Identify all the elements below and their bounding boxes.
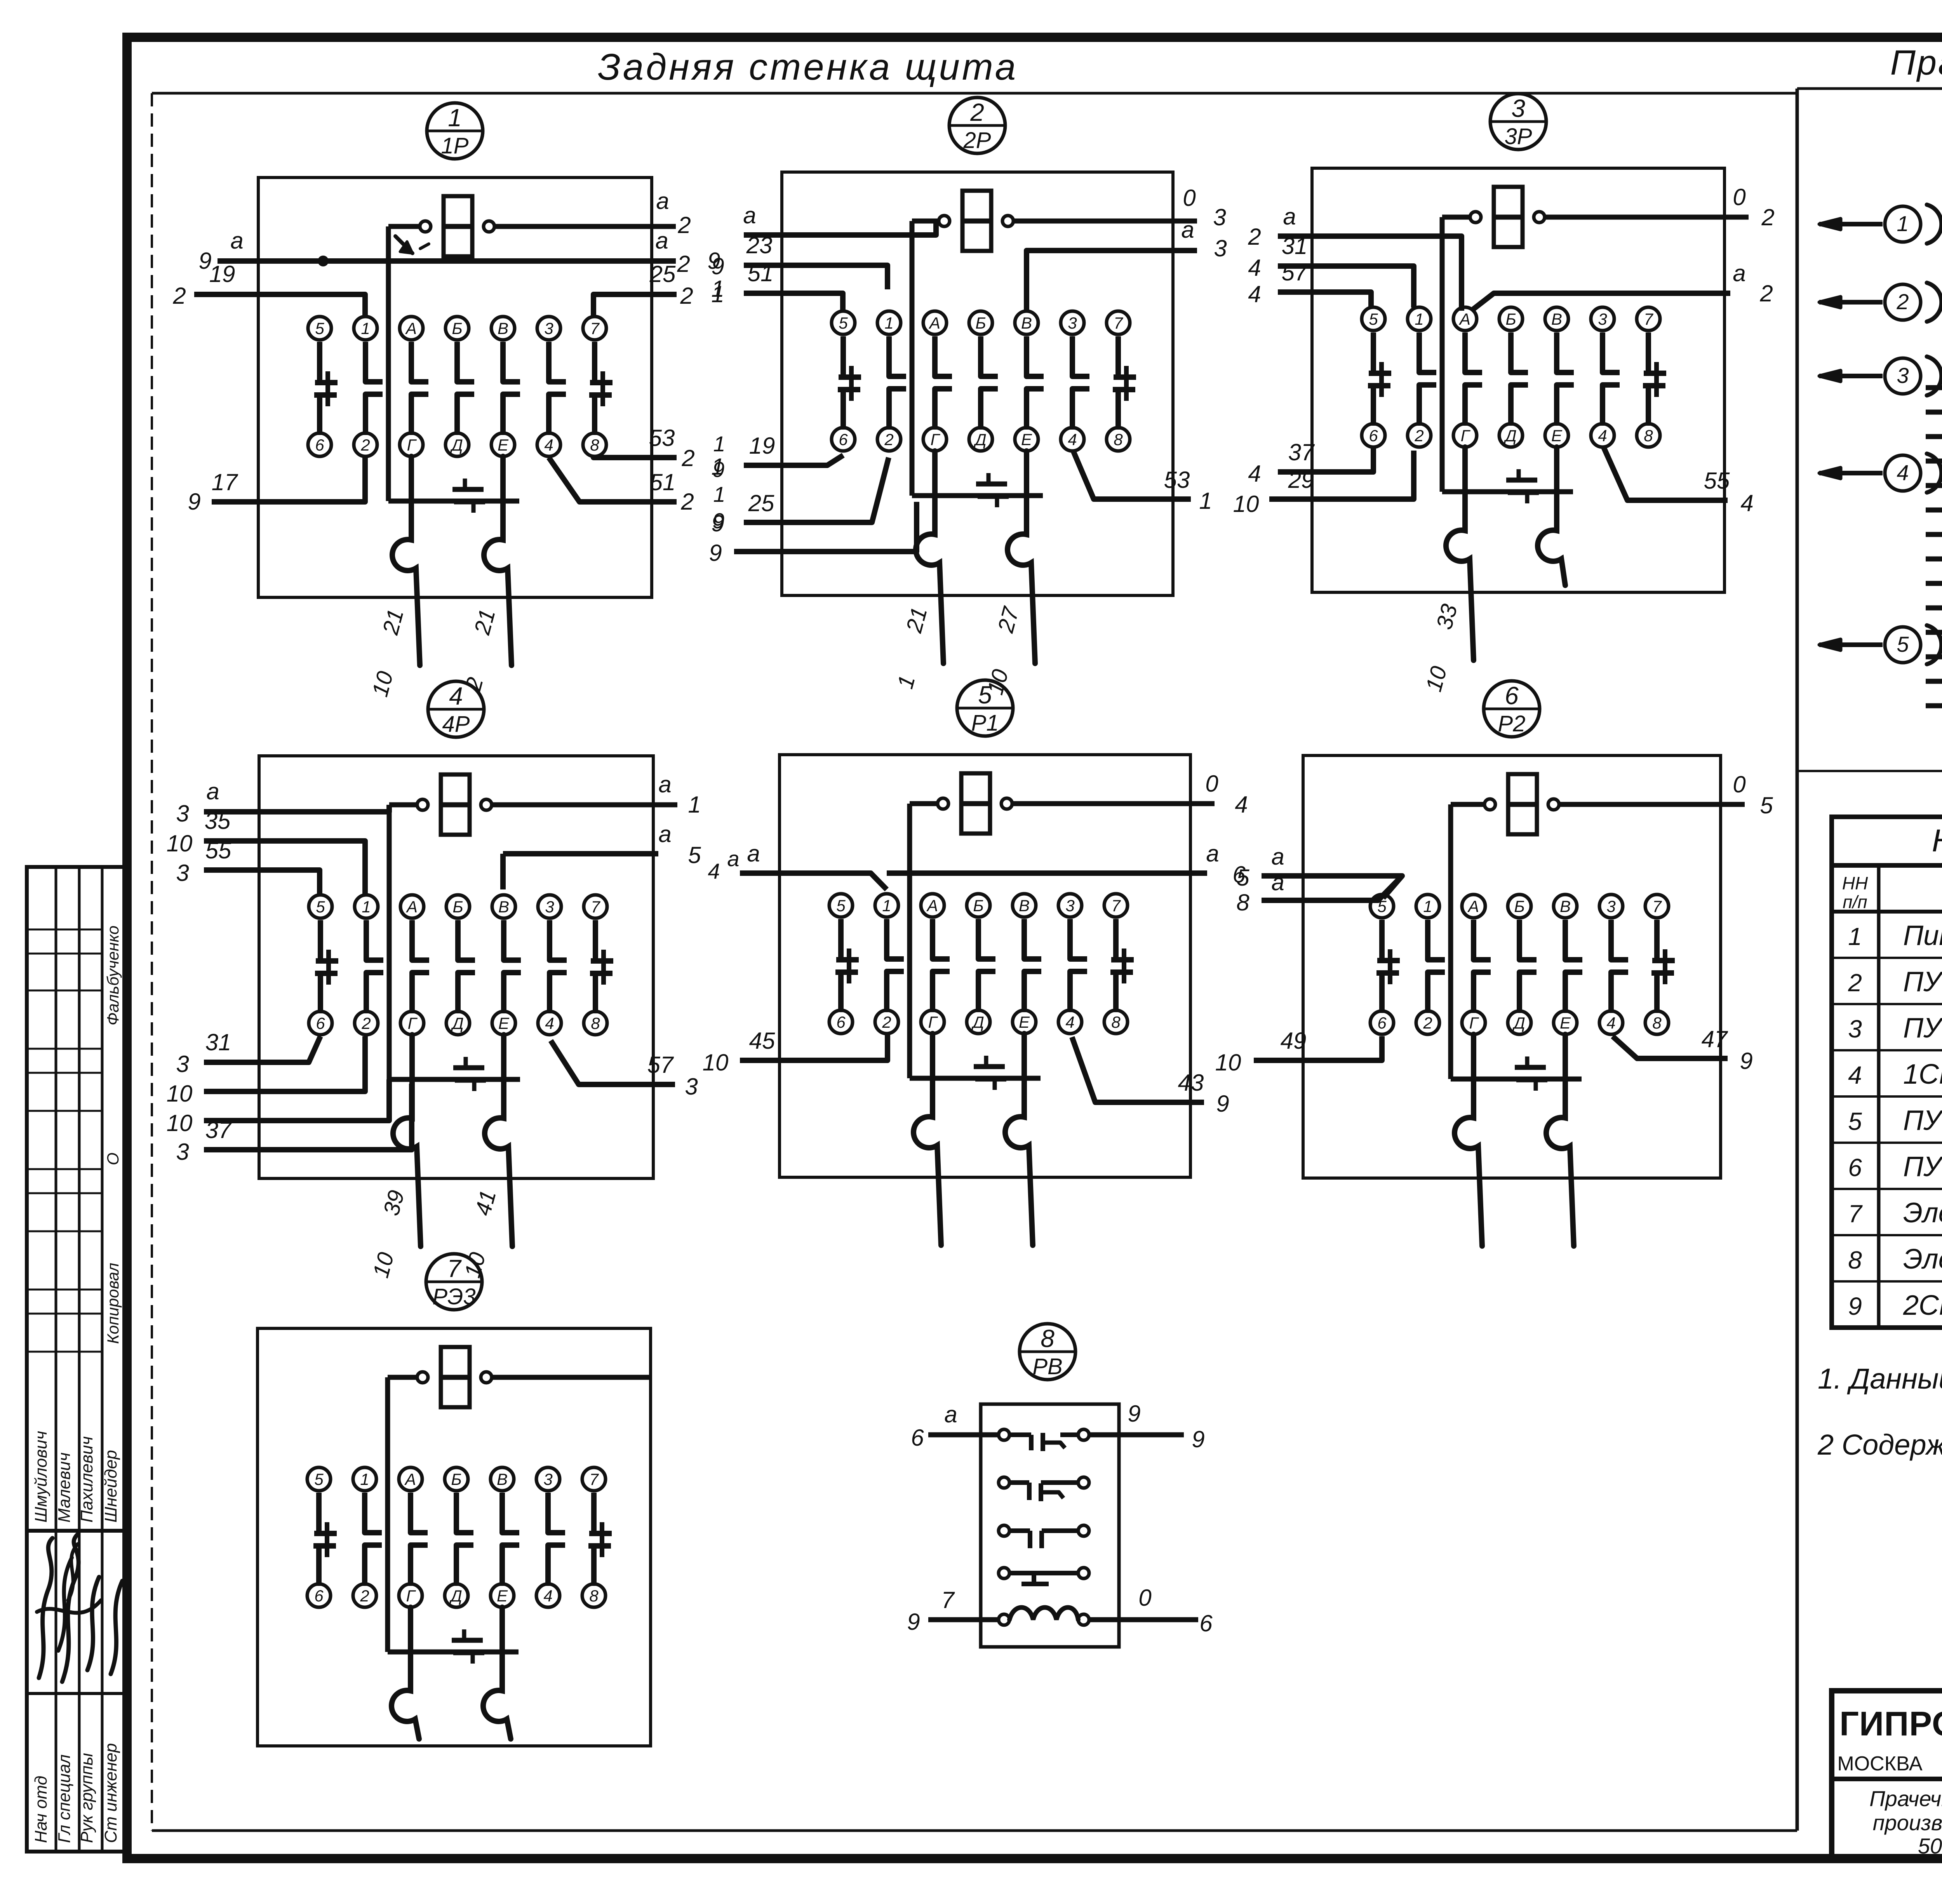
svg-text:ПУ стрелками N2: ПУ стрелками N2 bbox=[1903, 1151, 1942, 1182]
svg-text:1Р: 1Р bbox=[441, 133, 469, 158]
pin Д of relay 2Р bbox=[969, 428, 992, 451]
relay 1Р coil bbox=[388, 196, 676, 256]
svg-text:2: 2 bbox=[1896, 289, 1909, 314]
svg-text:3: 3 bbox=[176, 860, 189, 886]
pin 8 of relay 2Р bbox=[1107, 428, 1130, 451]
contact 5-6 of relay 3Р bbox=[1368, 332, 1391, 426]
svg-text:Нач отд: Нач отд bbox=[31, 1776, 50, 1843]
pin 6 of relay Р1 bbox=[829, 1010, 853, 1034]
contact А-Г of relay Р2 bbox=[1474, 920, 1491, 1013]
svg-text:500кг в смену: 500кг в смену bbox=[1918, 1834, 1942, 1858]
contact В-Е of relay Р1 bbox=[1024, 919, 1041, 1012]
wire 35 of relay 4Р bbox=[167, 808, 365, 895]
pin 7 of relay РЭ3 bbox=[582, 1467, 606, 1491]
wire 25 of relay 1Р bbox=[593, 261, 724, 317]
wire b1 of relay 4Р bbox=[167, 1036, 365, 1107]
table: Надписи на маркировочных колодках bbox=[1832, 817, 1942, 1328]
pin 8 of relay Р1 bbox=[1104, 1010, 1128, 1034]
cable connector 5 bbox=[1819, 625, 1942, 664]
svg-text:5: 5 bbox=[316, 898, 325, 916]
pin Е of relay 1Р bbox=[491, 433, 515, 456]
wire: relay Р2 bottom bus bbox=[1451, 1077, 1582, 1082]
pin А of relay 4Р bbox=[400, 895, 424, 918]
contact 1-2 of relay Р2 bbox=[1428, 920, 1445, 1013]
svg-text:10: 10 bbox=[1215, 1049, 1241, 1076]
cable exit loop under pin Е of relay Р2 bbox=[1546, 1034, 1574, 1246]
pin Б of relay 2Р bbox=[969, 311, 992, 334]
svg-text:7: 7 bbox=[591, 898, 600, 916]
svg-text:31: 31 bbox=[205, 1029, 231, 1055]
svg-text:а: а bbox=[656, 188, 669, 214]
svg-text:45: 45 bbox=[749, 1028, 775, 1054]
pin 5 of relay Р2 bbox=[1370, 895, 1394, 918]
svg-text:3: 3 bbox=[1848, 1015, 1862, 1043]
pin 7 of relay Р1 bbox=[1104, 894, 1128, 917]
svg-text:8: 8 bbox=[1236, 889, 1249, 915]
contact row 2 of relay РВ bbox=[999, 1477, 1089, 1501]
pin Д of relay 3Р bbox=[1499, 424, 1523, 447]
svg-text:Е: Е bbox=[1021, 430, 1032, 449]
pin А of relay Р1 bbox=[921, 894, 944, 917]
svg-text:4: 4 bbox=[449, 682, 463, 710]
wire: relay 2Р coil riser to bus bbox=[910, 221, 915, 496]
svg-text:Б: Б bbox=[452, 319, 462, 338]
pin 2 of relay Р2 bbox=[1416, 1011, 1439, 1034]
signatures (squiggles) bbox=[37, 1534, 122, 1682]
capacitor mark on Р2 bus bbox=[1525, 1056, 1530, 1067]
relay 2Р outer box bbox=[782, 172, 1173, 595]
wire: relay 3Р bottom bus bbox=[1442, 489, 1573, 494]
pin 1 of relay 4Р bbox=[355, 895, 378, 918]
pin А of relay РЭ3 bbox=[399, 1467, 422, 1491]
pin Д of relay Р2 bbox=[1508, 1011, 1531, 1034]
svg-text:7: 7 bbox=[590, 319, 600, 338]
svg-text:0: 0 bbox=[1733, 184, 1745, 210]
pin 5 of relay 1Р bbox=[308, 317, 331, 340]
contact 3-4 of relay 1Р bbox=[549, 342, 566, 435]
svg-text:Питание ~220в: Питание ~220в bbox=[1903, 920, 1942, 951]
svg-text:4: 4 bbox=[545, 1014, 554, 1032]
svg-text:Г: Г bbox=[407, 436, 417, 454]
signature strip frame bbox=[27, 867, 127, 1852]
logo ГИПРОБЫТПРОМ bbox=[1837, 1704, 1942, 1776]
pin 2 of relay РЭ3 bbox=[353, 1584, 376, 1607]
cable labels 21/1 bbox=[893, 604, 932, 691]
svg-text:3: 3 bbox=[685, 1074, 698, 1100]
wire a8 of relay Р2 bbox=[1236, 869, 1402, 915]
svg-text:49: 49 bbox=[1281, 1028, 1307, 1054]
contact А-Г of relay 3Р bbox=[1465, 332, 1482, 426]
contact 7-8 of relay 4Р bbox=[590, 920, 613, 1013]
svg-text:В: В bbox=[498, 898, 509, 916]
pin 2 of relay 3Р bbox=[1408, 424, 1431, 447]
wire 55 of relay 4Р bbox=[176, 837, 320, 895]
pin 4 of relay РЭ3 bbox=[536, 1584, 560, 1607]
wire 31 of relay 3Р bbox=[1248, 233, 1414, 308]
relay Р2 coil bbox=[1451, 774, 1745, 834]
svg-text:А: А bbox=[1467, 897, 1479, 915]
svg-text:Д: Д bbox=[971, 1013, 984, 1031]
pin В of relay 3Р bbox=[1545, 307, 1568, 331]
wire 43 of relay Р1 bbox=[1072, 1037, 1229, 1117]
svg-text:3: 3 bbox=[543, 1470, 552, 1488]
contact 3-4 of relay 2Р bbox=[1072, 336, 1089, 430]
relay 3Р outer box bbox=[1312, 168, 1724, 592]
capacitor mark on 3Р bus bbox=[1517, 469, 1521, 480]
svg-text:Пахилевич: Пахилевич bbox=[77, 1436, 96, 1523]
svg-text:6: 6 bbox=[911, 1425, 924, 1451]
svg-text:3: 3 bbox=[1897, 363, 1909, 388]
pin 5 of relay 3Р bbox=[1362, 307, 1385, 331]
pin Б of relay 4Р bbox=[446, 895, 470, 918]
svg-text:7: 7 bbox=[1111, 896, 1121, 915]
contact row 4 of relay РВ bbox=[999, 1568, 1089, 1584]
svg-text:3: 3 bbox=[1598, 310, 1607, 328]
svg-text:2: 2 bbox=[677, 251, 690, 277]
svg-text:4: 4 bbox=[1598, 426, 1607, 445]
wire 37 of relay 3Р bbox=[1248, 439, 1373, 487]
relay 4Р coil bbox=[389, 774, 677, 835]
contact 7-8 of relay Р2 bbox=[1651, 920, 1675, 1013]
contact 3-4 of relay РЭ3 bbox=[548, 1493, 565, 1586]
svg-text:1: 1 bbox=[361, 319, 370, 338]
pin 3 of relay РЭ3 bbox=[536, 1467, 560, 1491]
svg-text:Б: Б bbox=[973, 896, 983, 915]
pin 3 of relay Р2 bbox=[1599, 895, 1623, 918]
svg-text:6: 6 bbox=[1369, 426, 1378, 445]
svg-text:РВ: РВ bbox=[1032, 1354, 1062, 1379]
svg-text:Рук группы: Рук группы bbox=[77, 1753, 96, 1843]
svg-text:1: 1 bbox=[360, 1470, 369, 1488]
svg-text:В: В bbox=[1560, 897, 1571, 915]
relay Р2 outer box bbox=[1303, 755, 1721, 1178]
pin Е of relay Р2 bbox=[1554, 1011, 1577, 1034]
wire 23 of relay 2Р bbox=[711, 232, 887, 289]
pin 1 of relay 3Р bbox=[1408, 307, 1431, 331]
svg-text:ПУ фиксатором N2: ПУ фиксатором N2 bbox=[1903, 1013, 1942, 1044]
pin 8 of relay 4Р bbox=[584, 1011, 607, 1035]
signature strip rotated names bbox=[31, 1431, 120, 1523]
contact row 1 of relay РВ with feed wires bbox=[911, 1401, 1204, 1452]
cable exit loop under pin Г of relay РЭ3 bbox=[392, 1607, 419, 1739]
relay 3Р coil bbox=[1442, 187, 1749, 247]
svg-text:5: 5 bbox=[315, 319, 324, 338]
svg-text:8: 8 bbox=[1111, 1013, 1121, 1031]
svg-text:4Р: 4Р bbox=[442, 712, 470, 737]
svg-text:7: 7 bbox=[941, 1587, 955, 1613]
svg-text:Д: Д bbox=[1503, 426, 1517, 445]
svg-text:8: 8 bbox=[1041, 1324, 1055, 1352]
pin 4 of relay Р2 bbox=[1599, 1011, 1623, 1034]
svg-text:1: 1 bbox=[1848, 922, 1862, 950]
wire: relay 1Р coil riser to bus bbox=[386, 226, 391, 501]
svg-text:57: 57 bbox=[1282, 259, 1309, 285]
svg-text:2: 2 bbox=[677, 212, 691, 238]
contact Б-Д of relay Р1 bbox=[978, 919, 995, 1012]
wire 53 of relay 1Р bbox=[593, 425, 726, 482]
contact 7-8 of relay 3Р bbox=[1643, 332, 1666, 426]
svg-text:8: 8 bbox=[1848, 1246, 1862, 1274]
capacitor mark on 1Р bus bbox=[463, 479, 467, 489]
wire coil-out of relay 1Р bbox=[656, 188, 691, 238]
svg-text:37: 37 bbox=[205, 1117, 232, 1143]
svg-text:В: В bbox=[1021, 314, 1032, 332]
svg-text:2: 2 bbox=[680, 489, 694, 515]
junction blob on а-rail of relay 1Р bbox=[319, 257, 327, 265]
pin Б of relay 3Р bbox=[1499, 307, 1523, 331]
svg-text:2: 2 bbox=[884, 430, 893, 449]
capacitor mark on Р1 bus bbox=[984, 1056, 988, 1067]
wire 45 of relay Р1 bbox=[703, 1028, 887, 1076]
svg-text:4: 4 bbox=[1065, 1013, 1074, 1031]
wire coil-out of relay 2Р bbox=[1183, 185, 1226, 230]
pin Б of relay 1Р bbox=[445, 317, 469, 340]
signature strip other labels bbox=[104, 926, 122, 1344]
svg-text:Надписи на маркировочных колод: Надписи на маркировочных колодках bbox=[1932, 823, 1942, 858]
svg-text:ГИПРОБЫТПРОМ: ГИПРОБЫТПРОМ bbox=[1839, 1704, 1942, 1743]
svg-text:1: 1 bbox=[362, 898, 371, 916]
svg-text:0: 0 bbox=[1733, 771, 1745, 797]
relay Р1 designation circle bbox=[957, 680, 1013, 736]
wire a-rail of relay 1Р bbox=[198, 228, 720, 277]
svg-text:2: 2 bbox=[1248, 224, 1261, 250]
pin Г of relay 3Р bbox=[1453, 424, 1477, 447]
wire 17 of relay 1Р bbox=[188, 456, 365, 515]
contact 7-8 of relay РЭ3 bbox=[588, 1493, 612, 1586]
pin 1 of relay Р2 bbox=[1416, 895, 1439, 918]
svg-text:3: 3 bbox=[176, 1051, 189, 1077]
pin Д of relay 1Р bbox=[445, 433, 469, 456]
svg-text:2: 2 bbox=[680, 283, 693, 309]
pin 6 of relay 2Р bbox=[832, 428, 855, 451]
pin 7 of relay Р2 bbox=[1645, 895, 1669, 918]
cable labels 27/10 bbox=[982, 604, 1024, 698]
svg-text:53: 53 bbox=[649, 425, 675, 451]
svg-text:2: 2 bbox=[1414, 426, 1423, 445]
svg-text:8: 8 bbox=[1114, 430, 1123, 449]
pin 5 of relay Р1 bbox=[829, 894, 853, 917]
svg-text:7: 7 bbox=[447, 1255, 462, 1283]
svg-text:Г: Г bbox=[931, 430, 941, 449]
relay Р1 coil bbox=[910, 773, 1215, 834]
svg-text:Д: Д bbox=[1512, 1014, 1525, 1032]
contact 3-4 of relay Р1 bbox=[1070, 919, 1087, 1012]
svg-text:Г: Г bbox=[406, 1587, 416, 1605]
pin В of relay 1Р bbox=[491, 317, 515, 340]
wire: relay РЭ3 coil riser to bus bbox=[385, 1377, 390, 1652]
relay 4Р designation circle bbox=[428, 681, 484, 737]
svg-text:а: а bbox=[1283, 204, 1296, 230]
pin 8 of relay Р2 bbox=[1645, 1011, 1669, 1034]
relay РВ outer box bbox=[981, 1404, 1119, 1647]
svg-text:53: 53 bbox=[1164, 467, 1190, 493]
pin 6 of relay Р2 bbox=[1370, 1011, 1394, 1034]
svg-text:3: 3 bbox=[545, 898, 554, 916]
svg-text:7: 7 bbox=[589, 1470, 599, 1488]
svg-text:Электромагнит стрелки Н1: Электромагнит стрелки Н1 bbox=[1903, 1244, 1942, 1275]
svg-text:25: 25 bbox=[748, 490, 774, 516]
svg-text:2: 2 bbox=[1761, 204, 1774, 230]
wire a5 of relay Р2 bbox=[1236, 844, 1402, 898]
svg-text:3: 3 bbox=[176, 801, 189, 827]
pin 4 of relay 4Р bbox=[538, 1011, 561, 1035]
contact В-Е of relay РЭ3 bbox=[502, 1493, 519, 1586]
latch arrow mark near coil of relay 1Р bbox=[395, 236, 429, 253]
svg-text:3: 3 bbox=[1213, 204, 1226, 230]
wire a-out of relay 4Р bbox=[503, 821, 740, 883]
svg-text:3: 3 bbox=[1065, 896, 1074, 915]
relay Р2 designation circle bbox=[1484, 681, 1540, 737]
contact 7-8 of relay Р1 bbox=[1110, 919, 1134, 1012]
svg-text:Гл специал: Гл специал bbox=[55, 1754, 74, 1843]
svg-text:В: В bbox=[1551, 310, 1562, 328]
svg-text:1: 1 bbox=[1897, 211, 1909, 236]
pin 6 of relay 1Р bbox=[308, 433, 331, 456]
contact А-Г of relay 4Р bbox=[412, 920, 429, 1013]
contact А-Г of relay РЭ3 bbox=[411, 1493, 428, 1586]
pin Б of relay Р1 bbox=[967, 894, 990, 917]
wire: relay 2Р internal riser bbox=[912, 219, 936, 224]
pin В of relay 4Р bbox=[492, 895, 515, 918]
contact В-Е of relay 4Р bbox=[504, 920, 521, 1013]
wire a-out of relay 2Р bbox=[1027, 217, 1227, 311]
cable exit loop under pin Г of relay 4Р bbox=[393, 1035, 421, 1246]
svg-text:35: 35 bbox=[205, 808, 231, 834]
svg-text:4: 4 bbox=[1248, 461, 1261, 487]
pin 2 of relay 4Р bbox=[355, 1011, 378, 1035]
svg-text:2: 2 bbox=[361, 1014, 371, 1032]
contact Б-Д of relay 1Р bbox=[457, 342, 474, 435]
capacitor mark on 2Р bus bbox=[987, 473, 991, 484]
cable exit loop under pin Г of relay 1Р bbox=[392, 456, 420, 665]
pin В of relay Р1 bbox=[1013, 894, 1036, 917]
pin 4 of relay 1Р bbox=[537, 433, 560, 456]
wire: relay 3Р coil riser to bus bbox=[1440, 217, 1445, 492]
pin 2 of relay 2Р bbox=[877, 428, 901, 451]
wire: relay 1Р bottom bus bbox=[388, 499, 519, 504]
cable connector 4 bbox=[1819, 454, 1942, 493]
svg-text:4: 4 bbox=[1848, 1061, 1862, 1089]
cable exit loop under pin Е of relay 2Р bbox=[1008, 451, 1035, 663]
svg-text:3: 3 bbox=[1511, 94, 1525, 122]
pin 1 of relay 1Р bbox=[354, 317, 377, 340]
left drawing frame (Задняя стенка щита) bbox=[152, 89, 1797, 1831]
svg-text:Д: Д bbox=[450, 436, 463, 454]
svg-text:51: 51 bbox=[650, 469, 676, 495]
svg-text:В: В bbox=[497, 1470, 508, 1488]
contact Б-Д of relay 4Р bbox=[458, 920, 475, 1013]
relay РЭ3 coil bbox=[388, 1347, 651, 1407]
svg-text:8: 8 bbox=[1652, 1014, 1662, 1032]
svg-text:Правая боковая стенка щита: Правая боковая стенка щита bbox=[1890, 44, 1942, 82]
svg-text:17: 17 bbox=[212, 469, 238, 495]
cable exit loop under pin Г of relay 2Р bbox=[916, 451, 943, 663]
svg-text:9: 9 bbox=[1216, 1091, 1229, 1117]
svg-text:51: 51 bbox=[748, 260, 774, 286]
pin Е of relay 2Р bbox=[1015, 428, 1038, 451]
pin А of relay Р2 bbox=[1462, 895, 1485, 918]
svg-text:1СК: 1СК bbox=[1903, 1059, 1942, 1090]
wire 51 of relay 2Р bbox=[711, 260, 843, 311]
pin 3 of relay 4Р bbox=[538, 895, 561, 918]
svg-text:7: 7 bbox=[1114, 314, 1123, 332]
wire 57 of relay 4Р bbox=[551, 1041, 698, 1100]
svg-text:31: 31 bbox=[1282, 233, 1308, 259]
svg-text:6: 6 bbox=[1199, 1610, 1213, 1636]
svg-text:а: а bbox=[1271, 869, 1284, 895]
cable exit loop under pin Г of relay Р2 bbox=[1455, 1034, 1482, 1246]
contact 5-6 of relay 4Р bbox=[315, 920, 338, 1013]
svg-text:Е: Е bbox=[1551, 426, 1563, 445]
svg-text:1. Данный лист рассматривать с: 1. Данный лист рассматривать совместно с… bbox=[1818, 1363, 1942, 1395]
pin 7 of relay 1Р bbox=[583, 317, 606, 340]
svg-text:7: 7 bbox=[1644, 310, 1653, 328]
wire 29 of relay 3Р bbox=[1233, 451, 1414, 517]
svg-text:МОСКВА: МОСКВА bbox=[1837, 1753, 1923, 1775]
pin А of relay 2Р bbox=[923, 311, 947, 334]
svg-text:2: 2 bbox=[360, 1587, 369, 1605]
svg-text:Д: Д bbox=[973, 430, 987, 449]
svg-text:ПУ стрелками Н1: ПУ стрелками Н1 bbox=[1903, 1105, 1942, 1136]
svg-text:4: 4 bbox=[1740, 490, 1753, 516]
pin 5 of relay РЭ3 bbox=[307, 1467, 331, 1491]
wire: relay РЭ3 bottom bus bbox=[388, 1650, 519, 1655]
wire coil-out of relay Р1 bbox=[1205, 771, 1248, 818]
wire a of relay 4Р bbox=[176, 778, 389, 827]
contact 5-6 of relay 2Р bbox=[838, 336, 861, 430]
wire: relay Р2 coil riser to bus bbox=[1448, 804, 1453, 1079]
wire 47 of relay Р2 bbox=[1613, 1026, 1753, 1074]
cable exit loop under pin Е of relay 1Р bbox=[484, 456, 512, 665]
cable connector 1 bbox=[1819, 205, 1942, 244]
svg-text:Фальбученко: Фальбученко bbox=[104, 926, 122, 1025]
relay РЭ3 designation circle bbox=[426, 1254, 482, 1310]
svg-text:5: 5 bbox=[1848, 1107, 1862, 1135]
svg-text:19: 19 bbox=[209, 261, 235, 287]
svg-text:ПУ фиксатором Н1: ПУ фиксатором Н1 bbox=[1903, 966, 1942, 997]
contact 3-4 of relay 4Р bbox=[550, 920, 567, 1013]
svg-text:Шмуйлович: Шмуйлович bbox=[31, 1431, 50, 1523]
svg-text:8: 8 bbox=[591, 1014, 600, 1032]
wire a-out of relay 3Р bbox=[1471, 260, 1773, 311]
svg-text:10: 10 bbox=[167, 1081, 193, 1107]
svg-text:9: 9 bbox=[1192, 1426, 1204, 1452]
svg-text:А: А bbox=[405, 898, 418, 916]
cable labels 21/10 bbox=[367, 606, 408, 699]
svg-text:А: А bbox=[404, 1470, 416, 1488]
svg-text:10: 10 bbox=[1233, 491, 1259, 517]
svg-text:6: 6 bbox=[836, 1013, 846, 1031]
pin 1 of relay Р1 bbox=[875, 894, 898, 917]
svg-text:1: 1 bbox=[713, 482, 725, 506]
wire 49 of relay Р2 bbox=[1215, 1028, 1382, 1076]
svg-text:9: 9 bbox=[1740, 1048, 1752, 1074]
relay 2Р designation circle bbox=[949, 97, 1005, 153]
svg-text:2: 2 bbox=[681, 445, 694, 471]
contact Б-Д of relay РЭ3 bbox=[456, 1493, 473, 1586]
svg-text:Е: Е bbox=[1560, 1014, 1571, 1032]
relay РВ designation circle bbox=[1020, 1324, 1075, 1380]
svg-text:Б: Б bbox=[451, 1470, 461, 1488]
svg-text:4: 4 bbox=[708, 859, 720, 883]
wire 37 of relay 4Р bbox=[176, 1084, 412, 1165]
pin 1 of relay РЭ3 bbox=[353, 1467, 376, 1491]
svg-text:6: 6 bbox=[1505, 682, 1519, 710]
contact В-Е of relay Р2 bbox=[1565, 920, 1582, 1013]
svg-text:4: 4 bbox=[1235, 792, 1248, 818]
capacitor mark on РЭ3 bus bbox=[462, 1629, 466, 1640]
svg-text:а: а bbox=[206, 778, 219, 804]
